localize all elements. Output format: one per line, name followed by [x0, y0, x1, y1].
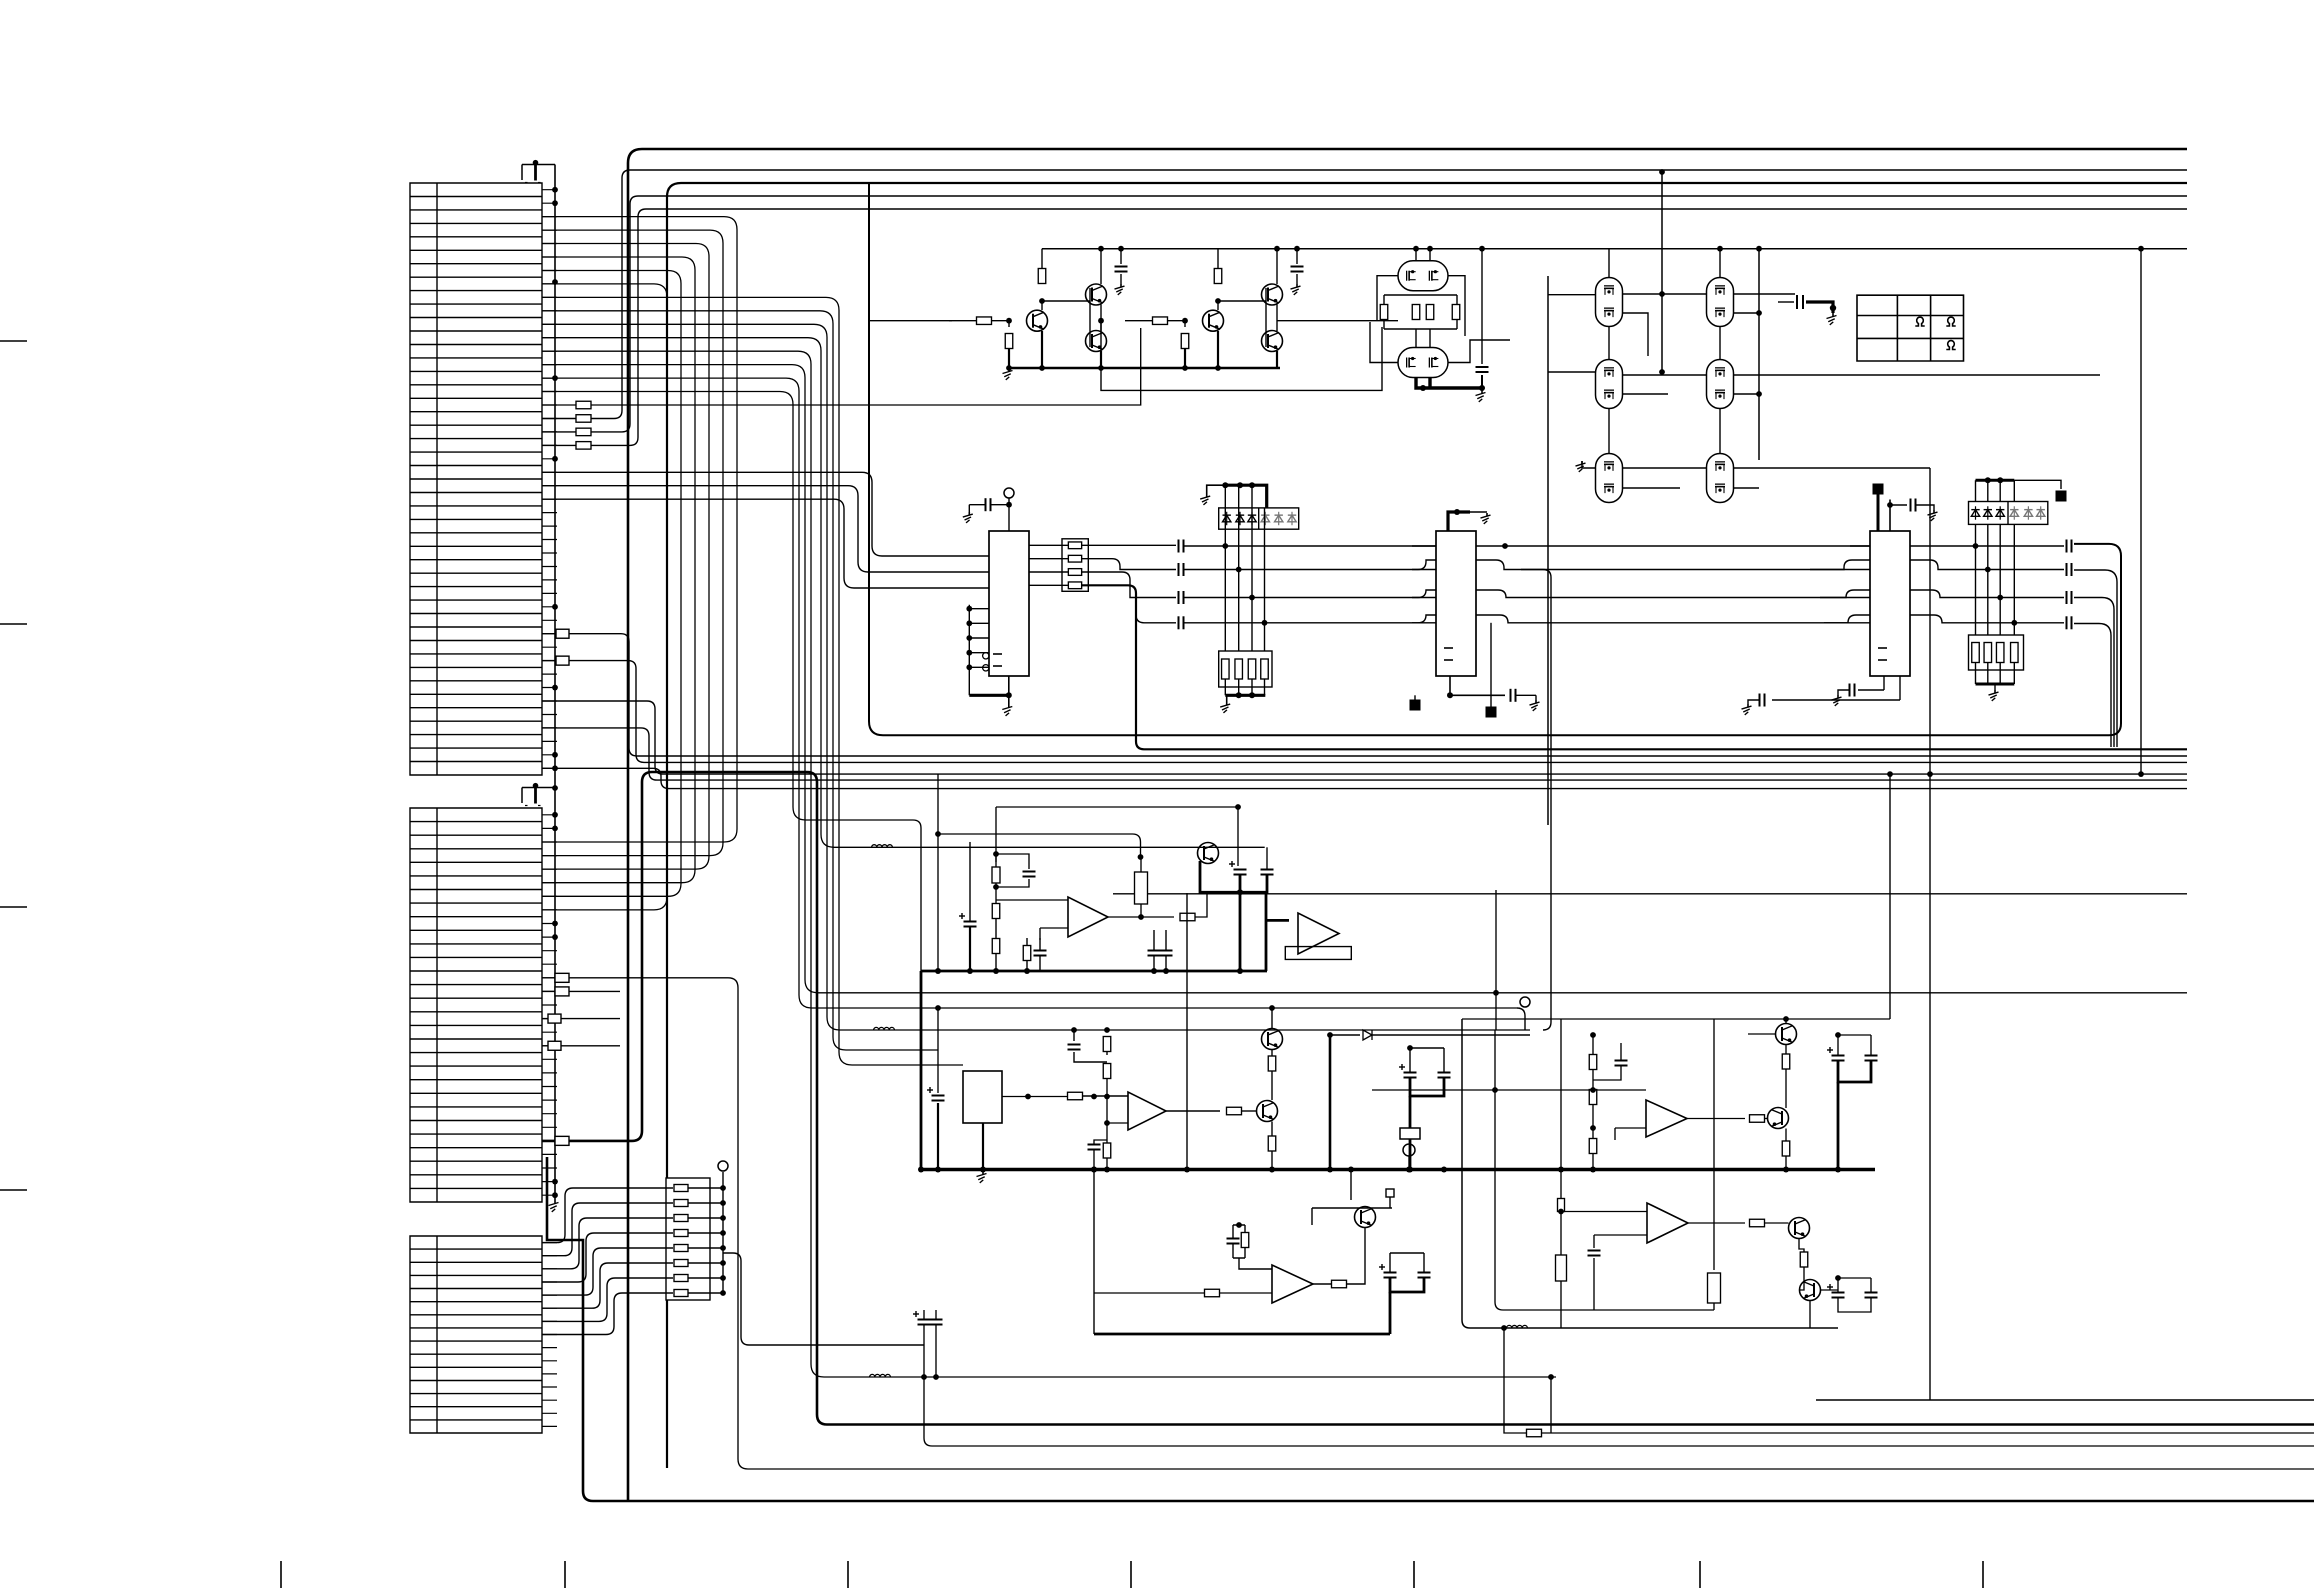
- capacitor: [1481, 249, 1483, 364]
- IC U1 left pins: [969, 605, 989, 696]
- capacitor pair lower: [1148, 950, 1161, 952]
- diode array vertical wires: [1224, 485, 1226, 661]
- wire bundle CN1 lower: [542, 311, 938, 1050]
- dual FET package: [1707, 454, 1734, 503]
- wire vertical x2141: [2140, 249, 2142, 774]
- wire to ground: [1207, 485, 1226, 494]
- wire upper collector: [1276, 249, 1278, 284]
- wire bundle CN1 lower: [542, 378, 1517, 1008]
- thick bottom B2: [1390, 1278, 1424, 1293]
- transistor QB2: [1262, 1029, 1283, 1050]
- IC U1 bottom ground thick: [969, 694, 1009, 697]
- capacitor bypass: [1120, 249, 1122, 264]
- connector CN3 pin stubs: [542, 1243, 557, 1427]
- wire to QF: [1765, 1222, 1789, 1224]
- resistor chain: [992, 904, 1000, 919]
- resistor base: [1153, 317, 1168, 325]
- diode array D2 box: [1969, 502, 2048, 525]
- right block inner left vertical: [1560, 1019, 1562, 1328]
- ferrite bead: [870, 1374, 891, 1377]
- op-amp A: [1068, 897, 1108, 937]
- wire output node: [1100, 305, 1102, 332]
- wire jumper to bottom line: [542, 661, 2187, 763]
- ground: [1296, 284, 1298, 288]
- IC U3 top: [1889, 500, 1891, 532]
- wire stage input: [1125, 320, 1153, 322]
- ground: [1008, 368, 1010, 372]
- wire: [1975, 663, 1977, 685]
- wire opamp D out: [1687, 1118, 1745, 1120]
- IC U2 bottom: [1449, 676, 1451, 695]
- resistor ladder R5: [674, 1245, 688, 1252]
- wire up to 1377: [1550, 1377, 1552, 1433]
- resistor output: [1227, 1107, 1242, 1115]
- resistor: [1412, 305, 1420, 320]
- wire opamp A output: [1108, 916, 1174, 918]
- dual FET package lower: [1398, 348, 1448, 378]
- right block top rail: [1462, 1018, 1890, 1020]
- transistor QG: [1800, 1280, 1821, 1301]
- wire to bottom rail: [1184, 348, 1186, 368]
- resistor-cap parallel: [996, 854, 1029, 869]
- dual FET package: [1707, 360, 1734, 409]
- output capacitors: [2066, 540, 2068, 553]
- resistor below QE: [1785, 1129, 1787, 1142]
- resistor array RA2 box: [1219, 651, 1272, 687]
- ferrite bead: [874, 1027, 895, 1030]
- resistor output: [1180, 913, 1195, 921]
- wire CN1 to IC1: [542, 486, 989, 572]
- wire: [1264, 679, 1266, 695]
- crimp symbol above CN2: [521, 788, 523, 804]
- wire output rise: [1195, 892, 1207, 917]
- wire ladder to bus: [688, 1277, 723, 1279]
- resistor ladder R4: [674, 1230, 688, 1237]
- wire ladder to bus: [688, 1187, 723, 1189]
- wire ladder to bus: [688, 1202, 723, 1204]
- resistor R17: [576, 428, 591, 436]
- wire CN2 jumper stub: [542, 990, 620, 992]
- capacitor pair: [1234, 869, 1247, 871]
- wire ladder to bus: [688, 1232, 723, 1234]
- dual FET package upper: [1398, 261, 1448, 291]
- transistor Q lower: [1086, 331, 1107, 352]
- ground: [1837, 695, 1839, 699]
- diode: [1261, 515, 1269, 522]
- resistor below: [1589, 1139, 1597, 1154]
- resistor: [1527, 1429, 1542, 1437]
- wire base node: [992, 320, 1011, 322]
- resistor output: [1750, 1115, 1765, 1123]
- diode: [1330, 1034, 1360, 1036]
- wire diode node: [1329, 1035, 1332, 1170]
- wire inner border loop: [869, 183, 2121, 735]
- diode array 2 top bus: [1976, 479, 2015, 482]
- diode: [2037, 510, 2045, 517]
- diode: [1248, 515, 1256, 522]
- wire caps thick down: [1410, 1078, 1444, 1097]
- wire B2 inputs: [1239, 1258, 1272, 1269]
- ferrite bead: [1507, 1325, 1528, 1328]
- resistor between: [1271, 1050, 1273, 1057]
- wire cluster2 row1 lower pins: [1622, 313, 1759, 356]
- ground: [1486, 513, 1488, 517]
- dual FET package: [1596, 278, 1623, 327]
- wire E upper input: [1561, 1211, 1647, 1213]
- connector CN1: [410, 183, 542, 775]
- wire cluster2 row2: [1548, 372, 2100, 394]
- wire IC1 to array: [1029, 571, 1068, 573]
- resistors below bus on border: [1558, 1199, 1565, 1212]
- transistor Q lower: [1262, 331, 1283, 352]
- dual FET package: [1596, 360, 1623, 409]
- resistor: [1996, 643, 2004, 663]
- resistor: [1068, 542, 1081, 549]
- IC U3 left pins: [1810, 546, 1870, 623]
- IC U2 top thick wire: [1448, 512, 1470, 531]
- ohm symbol: [1946, 341, 1955, 350]
- wire to square: [1976, 480, 2015, 501]
- diode: [1984, 510, 1992, 517]
- wire lower emitter: [1100, 351, 1102, 368]
- connector CN3: [410, 1236, 542, 1433]
- ruler ticks bottom: [281, 1561, 1983, 1588]
- right block border inner: [1495, 1030, 1714, 1310]
- wire 807 loop: [996, 807, 1238, 866]
- diode: [1223, 515, 1231, 522]
- ground: [1747, 704, 1749, 708]
- wire emitter down: [1217, 331, 1219, 368]
- diode: [2024, 510, 2032, 517]
- wire bundle CN1 lower: [542, 365, 2187, 993]
- wire bundle CN1 to CN2: [542, 244, 709, 870]
- resistor ladder R8: [674, 1290, 688, 1297]
- caps bottom left pair: [918, 1319, 931, 1321]
- resistor ladder R1: [674, 1185, 688, 1192]
- wire QC: [1364, 1228, 1366, 1282]
- wire ladder to bus: [688, 1292, 723, 1294]
- capacitor: [1910, 499, 1912, 512]
- wire emitter down: [1041, 331, 1043, 368]
- resistor ladder R7: [674, 1275, 688, 1282]
- wire jumper: [542, 1045, 620, 1047]
- wire fet1 left: [1370, 276, 1398, 363]
- resistor base: [977, 317, 992, 325]
- wire IC2 to IC3: [1521, 546, 1870, 623]
- black square terminal: [1486, 707, 1497, 718]
- rc pair mid: [1589, 1055, 1597, 1070]
- resistor R16: [576, 415, 591, 423]
- wire outer top border: [628, 149, 2187, 1502]
- black square terminal: [1410, 700, 1421, 711]
- wire long line y893: [1113, 893, 2187, 895]
- ground: [1120, 284, 1122, 288]
- ground bus B thick: [922, 1168, 1875, 1171]
- capacitor: [1510, 689, 1512, 702]
- wire stage1 out crossover: [1101, 321, 1382, 391]
- wire upper collector: [1100, 249, 1102, 284]
- IC U1 bubble pins: [983, 653, 989, 659]
- resistor ladder R6: [674, 1260, 688, 1267]
- ground: [1535, 700, 1537, 704]
- wire opamp C out: [1313, 1283, 1332, 1285]
- transistor Q upper: [1086, 284, 1107, 305]
- resistor array RA1: [1062, 539, 1088, 592]
- shield bus wire left: [554, 165, 556, 1201]
- transistor QE: [1768, 1108, 1789, 1129]
- diode: [1236, 515, 1244, 522]
- wire IC1 to array: [1029, 544, 1068, 546]
- wire resistor 1433 column: [1504, 1328, 1527, 1433]
- jumper link: [555, 1136, 569, 1145]
- op-amp B with flag: [1265, 892, 1268, 971]
- resistor: [1235, 659, 1243, 679]
- IC U2 dashes: [1444, 647, 1453, 649]
- wire bundle CN1 to CN2: [542, 257, 695, 883]
- diode: [2010, 510, 2018, 517]
- wire to opamp: [1083, 1095, 1129, 1097]
- resistor network rails: [1384, 295, 1457, 329]
- polarized capacitor: [932, 1095, 945, 1097]
- capacitor IC1 top: [991, 504, 1010, 506]
- caps below right: [1832, 1292, 1845, 1294]
- transistor Q first: [1203, 310, 1224, 331]
- right block border outer: [1462, 1019, 1838, 1328]
- op-amp E: [1647, 1203, 1688, 1243]
- bottom bus thick: [1225, 694, 1265, 697]
- resistor: [1068, 569, 1081, 576]
- wire base node: [1168, 320, 1187, 322]
- transistor QC: [1355, 1207, 1376, 1228]
- coupling capacitors: [1178, 540, 1180, 553]
- resistor bias: [1008, 321, 1010, 327]
- square pin terminal: [1386, 1189, 1394, 1197]
- wire to QE: [1765, 1118, 1768, 1120]
- jumper link: [548, 1014, 561, 1023]
- wire CN3 to ladder: [542, 1248, 673, 1295]
- ground: [1994, 690, 1996, 694]
- dual FET package: [1596, 454, 1623, 503]
- resistor: [1068, 555, 1081, 562]
- resistor: [1972, 643, 1980, 663]
- black square terminal: [2056, 491, 2067, 502]
- wire 834 line: [938, 834, 1141, 857]
- wire: [1251, 679, 1253, 695]
- wire CN1 to IC1: [542, 472, 989, 556]
- diode: [1275, 515, 1283, 522]
- resistor input: [1068, 1092, 1083, 1100]
- transistor QF: [1789, 1218, 1810, 1239]
- shield bus junction dots: [552, 187, 558, 193]
- diode array top bus thick: [1225, 485, 1266, 508]
- bottom bus: [1976, 683, 2015, 686]
- IC U3 dashes: [1878, 647, 1887, 649]
- IC U2 right pins: [1476, 546, 1521, 623]
- capacitor: [1588, 1250, 1601, 1252]
- wire cluster2 col verticals: [1609, 327, 1720, 453]
- transistor QA: [1198, 843, 1219, 864]
- resistor: [1984, 643, 1992, 663]
- ferrite bead: [872, 845, 893, 848]
- wire stage2 out: [1277, 320, 1398, 322]
- test point: [1400, 1128, 1420, 1139]
- jumper link: [555, 987, 569, 996]
- wire thick left vertical: [920, 971, 923, 1170]
- wire collector up: [1217, 301, 1219, 310]
- diode array 2 vertical wires: [1975, 524, 1977, 637]
- wire QD base: [1748, 1033, 1776, 1035]
- wire caps thick: [1200, 861, 1267, 892]
- wire IC1 to array: [1029, 558, 1068, 560]
- wire to bottom rail: [1008, 348, 1010, 368]
- jumper link: [555, 973, 569, 982]
- long vertical x1187: [1186, 893, 1188, 1170]
- IC U2 left pin jogs: [1412, 546, 1436, 623]
- wire opamp B lower input: [1107, 1122, 1128, 1124]
- wire ladder to bus: [688, 1262, 723, 1264]
- wire CN3 to ladder: [542, 1293, 673, 1335]
- wire CN3 to ladder: [542, 1263, 673, 1308]
- wire fet lower pins: [1416, 329, 1430, 348]
- wire block A left vertical: [913, 820, 921, 971]
- wire: [1224, 679, 1226, 695]
- wire CN1 to top border: [542, 209, 2187, 445]
- resistor ladder box: [666, 1178, 710, 1300]
- wire B2 right caps: [1384, 1272, 1397, 1274]
- resistor output: [1750, 1219, 1765, 1227]
- resistor: [1426, 305, 1434, 320]
- ground: [968, 512, 970, 516]
- resistor: [1261, 659, 1269, 679]
- wire CN3 to ladder: [542, 1218, 673, 1269]
- wire CN2 jumper to bottom line: [542, 978, 2314, 1469]
- resistor output: [1332, 1280, 1347, 1288]
- ground: [1832, 313, 1834, 317]
- caps right pair D: [1832, 1055, 1845, 1057]
- resistor array RA3 box: [1969, 635, 2024, 670]
- ground: [1933, 510, 1935, 514]
- resistor: [1452, 305, 1460, 320]
- jumper link: [556, 656, 569, 665]
- ruler ticks left: [0, 341, 27, 1190]
- wire array outputs: [1082, 544, 1176, 546]
- resistor ladder R3: [674, 1215, 688, 1222]
- resistor: [1068, 582, 1081, 589]
- resistor collector: [1214, 269, 1222, 284]
- IC U2: [1436, 531, 1476, 676]
- wire CN1 to top border: [542, 196, 2187, 432]
- diode: [1288, 515, 1296, 522]
- resistor: [2011, 643, 2019, 663]
- wire bundle CN1 to CN2: [542, 284, 667, 910]
- ground: [1226, 702, 1228, 706]
- wire CN1 to IC1: [542, 499, 989, 588]
- wire cap corners down: [2074, 570, 2117, 747]
- shield bus ground: [554, 1200, 556, 1204]
- wire vertical x1930 to line 1400: [1816, 468, 2314, 1400]
- ground: [1581, 461, 1583, 465]
- resistor below QB: [1271, 1122, 1273, 1137]
- wire bundle CN1 lower: [542, 392, 913, 821]
- resistor R18: [576, 442, 591, 450]
- diode: [1996, 510, 2004, 517]
- ohm symbol: [1946, 317, 1955, 326]
- wire CN1 row39 to border line: [542, 701, 2187, 774]
- wire ladder to bus: [688, 1217, 723, 1219]
- wire output node: [1276, 305, 1278, 332]
- wire jumper: [542, 1018, 620, 1020]
- wire fet1 right: [1448, 276, 1510, 363]
- wire lower emitter: [1276, 351, 1278, 368]
- wire vertical 938 lower: [937, 1008, 939, 1093]
- wire to QC emitter: [1347, 1281, 1366, 1284]
- wire bundle CN1 lower: [542, 297, 963, 1065]
- vertical 1714 with resistor: [1713, 1019, 1715, 1270]
- wire bundle CN1 to CN2: [542, 217, 737, 842]
- terminal circle: [1520, 997, 1530, 1007]
- wire bundle CN1 lower: [542, 338, 1265, 848]
- wire CN3 to ladder: [542, 1203, 673, 1256]
- diode array D1 box: [1219, 508, 1299, 529]
- ground: [1008, 704, 1010, 708]
- wire line4 branch: [1136, 615, 1176, 623]
- resistor: [1222, 659, 1230, 679]
- wire vertical x1890: [1889, 774, 1891, 1019]
- transistor QB: [1257, 1101, 1278, 1122]
- wire thick CN2 bottom route: [547, 1157, 2314, 1501]
- wire opamp inputs: [996, 900, 1068, 940]
- wire: [1999, 663, 2001, 685]
- wire loop B2: [1312, 1170, 1392, 1226]
- wire QG base: [1800, 1285, 1805, 1290]
- op-amp D: [1646, 1100, 1687, 1137]
- wire to QB: [1242, 1110, 1257, 1112]
- diode: [1971, 510, 1979, 517]
- capacitor coupling: [1796, 295, 1798, 309]
- ground: [1481, 390, 1483, 394]
- resistor below QF: [1798, 1239, 1800, 1246]
- resistor collector: [1038, 269, 1046, 284]
- resistor R20: [576, 401, 591, 409]
- rc parallel upper: [1074, 1029, 1107, 1041]
- wire left B2: [1093, 1170, 1095, 1335]
- resistor: [1205, 1289, 1220, 1297]
- resistor ladder R2: [674, 1200, 688, 1207]
- wire: [1987, 663, 1989, 685]
- caps right pair: [1404, 1072, 1417, 1074]
- ground: [982, 1171, 984, 1175]
- wire CN3 to ladder: [542, 1233, 673, 1282]
- IC U1: [989, 531, 1029, 676]
- wire CN3 to ladder: [542, 1188, 673, 1243]
- wire ladder bus right: [723, 1253, 924, 1345]
- resistor below QD: [1785, 1045, 1787, 1055]
- IC U3 bottom caps: [1883, 676, 1885, 690]
- IC U1 top pin circle: [1004, 488, 1014, 498]
- wire opamp E out: [1688, 1222, 1745, 1224]
- wire inputs D: [1615, 1128, 1646, 1140]
- wire CN2 jumper thick trunk: [542, 772, 2314, 1425]
- wire IC1 to array: [1029, 584, 1068, 586]
- transistor QD: [1776, 1024, 1797, 1045]
- wire cluster2 row3: [1582, 461, 1930, 488]
- wire block B top loop corner: [1517, 1008, 1525, 1030]
- wire stage input: [949, 320, 977, 322]
- connector CN2 pin stubs: [542, 815, 557, 1195]
- resistor: [1589, 1090, 1597, 1105]
- thick L: [1838, 1061, 1871, 1083]
- wire cap to ground thick: [1806, 302, 1833, 313]
